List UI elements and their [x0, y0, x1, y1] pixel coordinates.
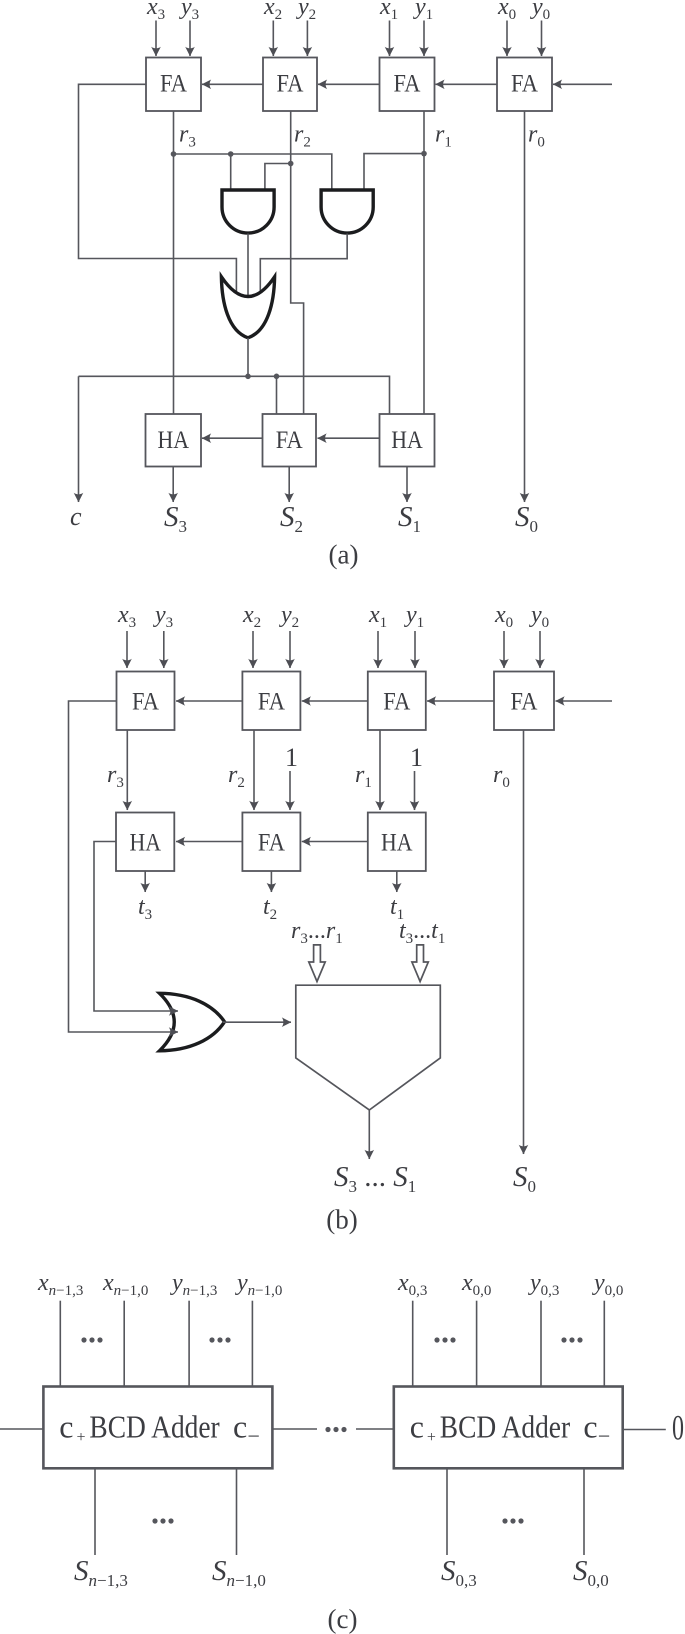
input arrow x0: [506, 21, 508, 57]
wire r1 branch to AND2 right input: [364, 154, 424, 190]
BCD adder block n-1: [43, 1387, 272, 1469]
half adder HA1 box (b): [368, 813, 426, 872]
node r2 junction: [288, 161, 294, 167]
svg-text:FA: FA: [258, 689, 285, 716]
input arrow x3 (b): [126, 631, 128, 668]
input wire xn-1,3: [59, 1301, 61, 1387]
input wire yn-1,3: [188, 1301, 190, 1387]
input arrow y2: [306, 21, 308, 57]
input arrow y3 (b): [163, 631, 165, 668]
input wire y0,0: [603, 1301, 605, 1387]
svg-text:c: c: [233, 1409, 247, 1445]
full adder FA3 box (b): [117, 672, 175, 731]
input wire yn-1,0: [251, 1301, 253, 1387]
wire r2 with jog down to FA (a) bottom row: [291, 111, 304, 414]
full adder FA2 box (a): [263, 58, 317, 112]
svg-text:HA: HA: [381, 830, 413, 857]
svg-text:FA: FA: [276, 427, 303, 454]
full adder FA0 box (a): [497, 58, 552, 112]
wire r1 vertical: [423, 111, 425, 414]
input arrow y0: [541, 21, 543, 57]
svg-text:S3 ... S1: S3 ... S1: [334, 1161, 416, 1196]
input arrow y0 (b): [539, 631, 541, 668]
svg-text:HA: HA: [157, 427, 189, 454]
carry-in wire (a): [553, 83, 612, 85]
ellipsis bottom right: [502, 1518, 507, 1523]
input arrow x1: [389, 21, 391, 57]
output wire S0,3: [446, 1468, 448, 1555]
svg-text:−: −: [598, 1424, 610, 1449]
wire r0 S0 output: [524, 111, 526, 502]
input arrow y3: [189, 21, 191, 57]
svg-text:HA: HA: [129, 830, 161, 857]
input arrow y1 (b): [414, 631, 416, 668]
AND gate G2 (r3.r1): [321, 190, 373, 233]
full adder FA1 box (b): [368, 672, 426, 731]
svg-text:c: c: [410, 1409, 424, 1445]
ellipsis top left pair 2: [209, 1337, 214, 1342]
output arrow S2: [288, 467, 290, 503]
carry-out wire FA3 to OR gate: [79, 84, 237, 291]
svg-text:1: 1: [410, 743, 423, 772]
carry-out stub left: [0, 1428, 43, 1430]
ellipsis top right pair 2: [561, 1337, 566, 1342]
svg-text:FA: FA: [383, 689, 410, 716]
output arrow t1: [396, 871, 398, 892]
carry-out wire FA3 to OR gate (b): [69, 701, 179, 1032]
input arrow x2: [272, 21, 274, 57]
output wire Sn-1,3: [94, 1468, 96, 1555]
node r3 junction: [171, 151, 177, 157]
input wire x0,3: [412, 1301, 414, 1387]
output wire Sn-1,0: [236, 1468, 238, 1555]
OR gate G3 (a): [221, 277, 274, 338]
ellipsis bottom left: [152, 1518, 157, 1523]
svg-text:(b): (b): [326, 1205, 357, 1235]
svg-text:c: c: [583, 1409, 597, 1445]
input wire x0,0: [476, 1301, 478, 1387]
wire AND1 output to OR: [247, 234, 249, 297]
svg-text:r3...r1: r3...r1: [291, 918, 343, 947]
OR gate (b): [160, 993, 225, 1051]
node r1 junction: [421, 151, 427, 157]
hollow bus arrow r3...r1: [309, 945, 325, 982]
half adder HA3 box (a): [146, 414, 202, 467]
svg-text:−: −: [248, 1424, 260, 1449]
carry-in stub right: [622, 1429, 666, 1431]
node AND1 left input junction: [228, 151, 234, 157]
constant 1 arrow into FA2b: [289, 771, 291, 810]
carry wire FA1 to FA2: [318, 83, 380, 85]
wire AND2 output to OR: [260, 234, 347, 294]
svg-text:FA: FA: [160, 71, 187, 98]
AND gate G1 (r3.r2): [222, 190, 274, 233]
input arrow x3: [155, 21, 157, 57]
svg-text:HA: HA: [391, 427, 423, 454]
half adder HA3 box (b): [116, 813, 174, 872]
input wire xn-1,0: [123, 1301, 125, 1387]
input arrow x1 (b): [377, 631, 379, 668]
full adder FA3 box (a): [146, 58, 201, 112]
wire r3 horizontal to AND gates: [174, 154, 332, 190]
input arrow x2 (b): [252, 631, 254, 668]
multiplexer trapezoid (b): [296, 985, 441, 1110]
output wire S0,0: [583, 1468, 585, 1555]
full adder FA1 box (a): [380, 58, 435, 112]
svg-text:(c): (c): [328, 1604, 358, 1634]
output arrow S1: [406, 467, 408, 503]
svg-text:BCD Adder: BCD Adder: [440, 1409, 571, 1445]
svg-text:FA: FA: [258, 830, 285, 857]
svg-text:(a): (a): [329, 540, 359, 570]
svg-text:+: +: [77, 1429, 86, 1446]
node c line junction FA branch: [274, 374, 280, 380]
full adder FA2b box (b): [242, 813, 300, 872]
svg-text:c: c: [70, 502, 82, 531]
carry wire HA1 to FA2b (b): [302, 841, 368, 843]
wire c branch to bottom FA: [276, 376, 278, 414]
output arrow of mux: [368, 1110, 370, 1159]
wire r2 arrow (b): [253, 730, 255, 810]
constant 1 arrow into HA1b: [414, 771, 416, 810]
full adder FA2 box (b): [242, 672, 300, 731]
svg-text:FA: FA: [511, 71, 538, 98]
input wire y0,3: [540, 1301, 542, 1387]
full adder FA0 box (b): [494, 672, 554, 731]
input arrow y1: [423, 21, 425, 57]
carry wire FA1 to FA2 (b): [302, 700, 368, 702]
wire AND1 left input: [230, 154, 232, 190]
carry-out wire HA3 to OR gate (b): [94, 842, 178, 1012]
output arrow t2: [270, 871, 272, 892]
carry wire FA2 to FA3: [202, 83, 263, 85]
wire r3 arrow (b): [126, 730, 128, 810]
wire c horizontal line: [79, 376, 390, 414]
svg-text:+: +: [427, 1429, 436, 1446]
output arrow c: [78, 376, 80, 502]
BCD adder block 0: [394, 1387, 623, 1469]
ellipsis top right pair 1: [434, 1337, 439, 1342]
svg-text:BCD Adder: BCD Adder: [89, 1409, 220, 1445]
wire r2 branch to AND1 right input: [265, 164, 291, 191]
svg-text:0: 0: [672, 1408, 684, 1448]
wire r1 arrow (b): [379, 730, 381, 810]
svg-text:c: c: [59, 1409, 73, 1445]
wire OR output to mux (b): [223, 1021, 291, 1023]
svg-text:FA: FA: [132, 689, 159, 716]
carry wire HA1 to FA2b: [318, 437, 380, 439]
output arrow S3: [172, 467, 174, 503]
input arrow y2 (b): [289, 631, 291, 668]
wire r3 vertical: [173, 111, 175, 414]
node c line junction OR output: [245, 374, 251, 380]
svg-text:FA: FA: [394, 71, 421, 98]
inter-block wire left segment: [272, 1428, 317, 1430]
svg-text:1: 1: [285, 743, 298, 772]
carry wire FA2 to FA3 (b): [176, 700, 242, 702]
inter-block wire right segment: [356, 1428, 394, 1430]
svg-text:FA: FA: [511, 689, 538, 716]
hollow bus arrow t3...t1: [412, 945, 428, 982]
carry wire FA2b to HA3: [202, 437, 263, 439]
carry wire FA2b to HA3 (b): [176, 841, 242, 843]
full adder FA2b box (a): [263, 414, 317, 467]
ellipsis between blocks: [325, 1427, 330, 1432]
carry wire FA0 to FA1: [436, 83, 498, 85]
ellipsis top left pair 1: [81, 1337, 86, 1342]
half adder HA1 box (a): [380, 414, 435, 467]
carry wire FA0 to FA1 (b): [427, 700, 494, 702]
wire OR output to c line: [247, 338, 249, 376]
svg-text:FA: FA: [277, 71, 304, 98]
wire r0 to S0 (b): [523, 730, 525, 1154]
input arrow x0 (b): [503, 631, 505, 668]
output arrow t3: [144, 871, 146, 892]
carry-in wire (b): [556, 700, 613, 702]
